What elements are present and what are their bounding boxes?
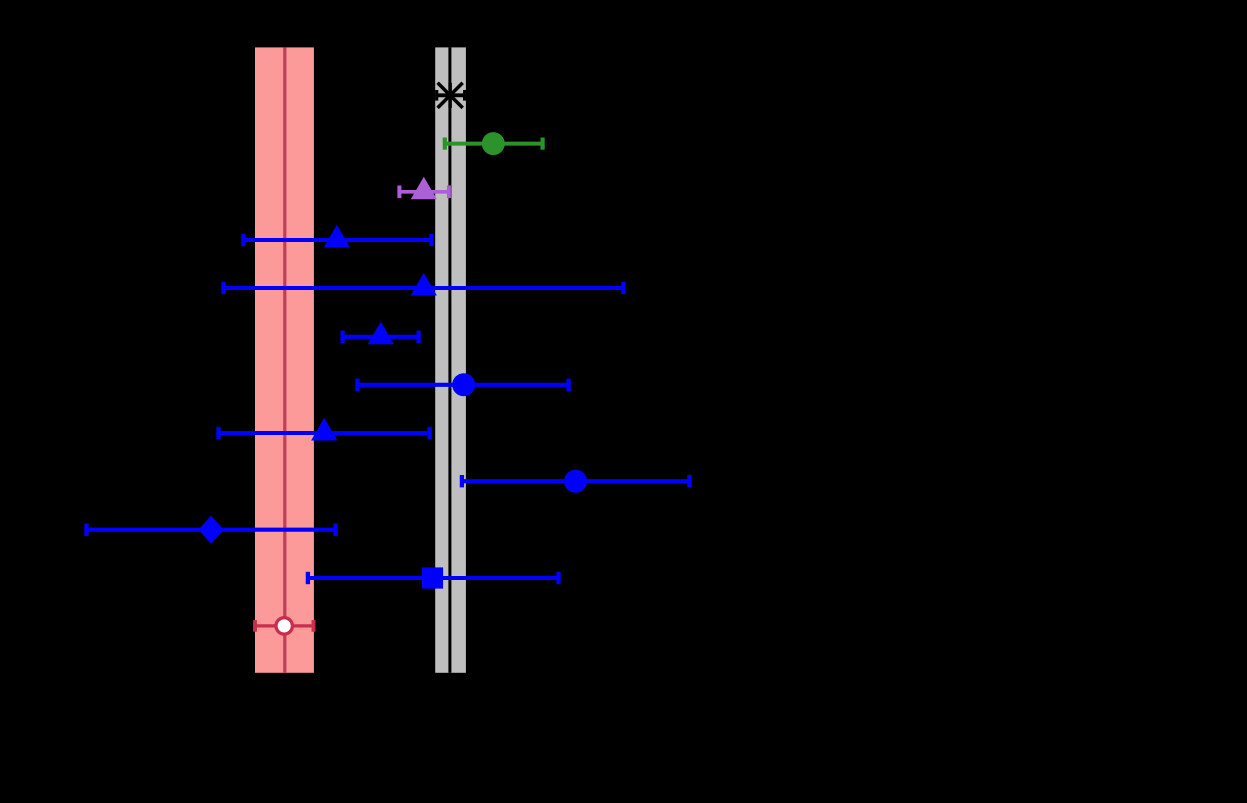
row 2: green errorbar caps <box>445 138 543 150</box>
row 7: blue errorbar caps <box>358 379 569 391</box>
row 8: blue errorbar caps <box>219 427 430 439</box>
row 4: blue marker <box>324 225 350 248</box>
pink band (measurement uncertainty band) <box>255 47 314 672</box>
row 5: blue marker <box>411 273 437 296</box>
row 12: crimson errorbar caps <box>255 620 314 632</box>
row 6: blue errorbar <box>343 335 419 339</box>
row 8: blue errorbar <box>219 431 430 435</box>
row 9: blue errorbar caps <box>462 475 690 487</box>
row 2: green marker <box>482 132 505 155</box>
row 11: blue errorbar caps <box>308 572 559 584</box>
row 2: green errorbar <box>445 142 543 146</box>
row 8: blue marker <box>311 418 337 441</box>
pink band center line <box>283 47 286 672</box>
row 6: blue marker <box>368 322 394 345</box>
row 10: blue errorbar caps <box>87 524 336 536</box>
row 3: purple marker <box>411 177 437 200</box>
row 10: blue errorbar <box>87 528 336 532</box>
row 1: black errorbar <box>437 93 465 97</box>
row 5: blue errorbar <box>224 286 624 290</box>
row 3: purple errorbar caps <box>399 186 449 199</box>
row 1: black marker <box>438 83 463 108</box>
row 12: crimson errorbar <box>255 624 314 627</box>
row 7: blue marker <box>452 373 475 396</box>
row 12: crimson marker <box>276 618 292 634</box>
row 4: blue errorbar caps <box>244 234 432 246</box>
row 11: blue errorbar <box>308 576 559 580</box>
row 10: blue marker <box>199 516 224 544</box>
row 11: blue marker <box>422 567 443 588</box>
row 6: blue errorbar caps <box>343 331 419 343</box>
row 4: blue errorbar <box>244 238 432 242</box>
row 3: purple errorbar <box>399 190 449 194</box>
row 7: blue errorbar <box>358 383 569 387</box>
gray band center line <box>448 47 451 672</box>
row 5: blue errorbar caps <box>224 282 624 294</box>
row 9: blue errorbar <box>462 479 690 483</box>
row 9: blue marker <box>564 470 587 493</box>
row 1: black errorbar caps <box>437 90 465 101</box>
gray band (expectation uncertainty band) <box>435 47 466 672</box>
